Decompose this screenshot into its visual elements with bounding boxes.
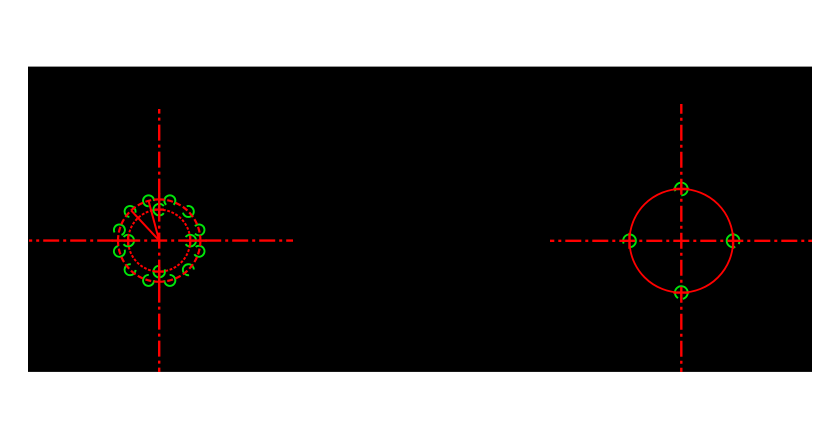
left bore circle [128,210,190,272]
hole at 225 deg on bolt circle [125,264,136,275]
hole at 75 deg on bolt circle [164,195,175,205]
hole at 0 deg on right circle [727,234,740,247]
hole at 345 deg on bolt circle [194,246,204,257]
hole at 255 deg on bolt circle [143,275,154,286]
left figure vertical centerline [158,109,160,372]
hole at 180 deg on right circle [623,234,636,247]
hole at 180 deg on bore circle [124,235,134,247]
center mark of 180 deg bore hole [124,239,133,241]
hole at 45 deg on bolt circle [183,206,194,217]
hole at 15 deg on bolt circle [195,224,205,235]
center mark dash of 270 deg hole [673,291,689,293]
radius line to 133 deg hole [131,210,159,240]
left figure horizontal centerline [29,239,293,241]
drawing background [28,67,812,372]
center mark of 0 deg bore hole [186,239,195,241]
centerline dash crossing bolt circle at 270 deg [158,275,160,288]
hole at 90 deg on right circle [675,183,688,196]
hole at 165 deg on bolt circle [114,224,125,235]
hole at 315 deg on bolt circle [183,264,194,275]
center mark of 270 deg bore hole [155,270,164,272]
center mark dash of 0 deg hole [732,233,734,249]
right circle [630,189,734,293]
center mark of 90 deg bore hole [155,208,164,210]
center mark dash of 180 deg hole [628,233,630,249]
right figure horizontal centerline [550,240,812,242]
right figure vertical centerline [680,104,682,372]
hole at 90 deg on bore circle [153,204,163,216]
hole at 285 deg on bolt circle [164,275,175,286]
centerline dash crossing bolt circle at 180 deg [112,239,125,241]
radius line to 105 deg hole [149,201,160,241]
centerline dash crossing bolt circle at 0 deg [194,239,207,241]
hole at 0 deg on bore circle [186,235,196,247]
center mark dash of 90 deg hole [673,188,689,190]
hole at 195 deg on bolt circle [114,246,125,257]
centerline dash crossing bolt circle at 90 deg [158,193,160,206]
hole at 270 deg on bore circle [153,266,165,278]
hole at 105 deg on bolt circle [143,195,154,206]
hole at 270 deg on right circle [675,286,688,299]
left bolt circle [118,199,200,281]
hole at 135 deg on bolt circle [125,206,136,217]
